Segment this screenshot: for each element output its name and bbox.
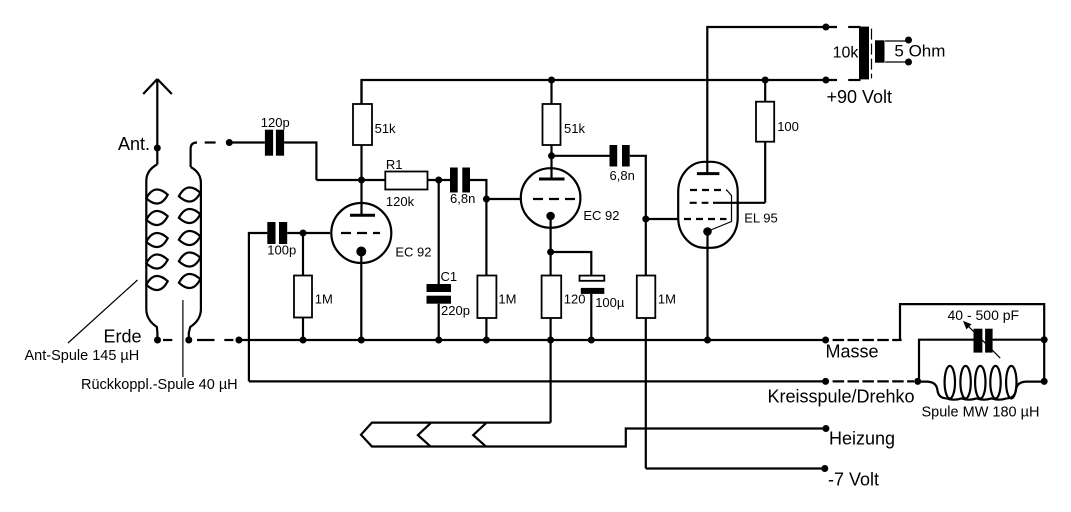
wire node down to C1 <box>438 180 440 284</box>
svg-text:5 Ohm: 5 Ohm <box>894 42 945 61</box>
heater twisted-pair symbol <box>361 423 826 447</box>
leader line for Ant-Spule label <box>68 280 138 343</box>
node input junction dot <box>226 139 233 146</box>
resistor R1 120k <box>385 172 427 190</box>
tube V3 g3 to cathode link <box>710 190 732 231</box>
node C1 ground dot <box>435 337 442 344</box>
svg-text:1M: 1M <box>315 292 333 307</box>
node -7V terminal dot <box>821 465 828 472</box>
node Erde terminal dot <box>154 337 161 344</box>
resistor 51k (stage 2 anode load) <box>543 80 561 179</box>
transformer T1 primary winding bar <box>859 27 869 80</box>
capacitor 100u electrolytic <box>580 276 605 294</box>
svg-text:Heizung: Heizung <box>829 429 895 449</box>
svg-text:51k: 51k <box>375 121 396 136</box>
node ground rail start dot <box>235 337 242 344</box>
capacitor 6,8n (second coupling) <box>610 145 630 167</box>
variable capacitor C 40-500pF plates <box>974 329 993 353</box>
wire -7V horizontal <box>646 467 825 469</box>
node V1 cathode ground dot <box>358 337 365 344</box>
tube V1 EC 92 envelope <box>331 203 391 263</box>
tube V3 grid g3 dashes <box>690 189 727 191</box>
svg-text:1M: 1M <box>498 292 516 307</box>
net Masse ground rail <box>239 339 826 341</box>
svg-text:EC 92: EC 92 <box>395 245 431 260</box>
capacitor C1 220p <box>427 284 452 304</box>
wire V3 anode to transformer <box>707 27 837 174</box>
tube V2 EC 92 envelope <box>521 168 581 228</box>
node L2 bottom junction dot <box>185 337 192 344</box>
node secondary bottom terminal dot <box>905 59 912 66</box>
resistor 120 (cathode) <box>542 276 562 319</box>
tube V2 cathode dot <box>546 212 555 221</box>
node tank left dot <box>914 378 921 385</box>
wire tank top detour <box>900 304 1044 381</box>
wire V1 cathode to ground <box>360 252 362 341</box>
antenna symbol <box>143 79 172 165</box>
svg-text:120p: 120p <box>261 115 290 130</box>
svg-text:-7 Volt: -7 Volt <box>828 470 879 490</box>
wire Masse dashed to tank <box>833 339 902 341</box>
resistor 1M (V2 grid leak) <box>477 199 496 340</box>
transformer secondary winding bar <box>875 40 885 62</box>
tube V3 EL 95 envelope <box>678 162 738 248</box>
svg-text:40 - 500 pF: 40 - 500 pF <box>948 307 1020 323</box>
capacitor 100p (feedback) <box>267 222 287 244</box>
tube V3 grid g1 dashes <box>684 218 727 220</box>
node Heizung terminal dot <box>822 425 829 432</box>
tube V1 cathode dot <box>356 247 366 257</box>
heater chevron 2 <box>473 423 486 446</box>
wire 120p to grid junction of V1 <box>284 143 385 181</box>
wire secondary top lead <box>885 40 908 42</box>
svg-text:C1: C1 <box>441 269 458 284</box>
resistor 51k (stage 1 anode load) <box>353 80 372 214</box>
wire cathode node to 100u <box>551 252 592 276</box>
coil L3 Spule MW (tank coil) <box>918 366 1044 400</box>
node V1 grid leak junction dot <box>300 230 307 237</box>
node Masse terminal dot <box>822 337 829 344</box>
node anode top lead dot <box>822 24 829 31</box>
svg-text:Ant.: Ant. <box>118 134 150 154</box>
node Ant (terminal dot) <box>154 145 161 152</box>
svg-text:EL 95: EL 95 <box>744 211 778 226</box>
node 1M ground dot <box>483 337 490 344</box>
tube V2 anode bar <box>539 178 565 181</box>
wire ground dashed segments <box>197 339 233 341</box>
svg-text:100: 100 <box>777 119 799 134</box>
wire ground dash segment <box>163 339 172 341</box>
wire Kreisspule dashed to tank <box>833 380 914 382</box>
wire R1 to coupling node <box>428 179 451 181</box>
tube V2 grid dashes <box>533 198 576 200</box>
node secondary top terminal dot <box>905 37 912 44</box>
svg-text:100p: 100p <box>267 243 296 258</box>
net Kreisspule/Drehko wire <box>249 380 826 382</box>
node rail dot at 100 ohm <box>762 77 769 84</box>
wire primary bottom hook <box>848 79 860 81</box>
wire 100 to rail <box>764 80 766 102</box>
tube V3 anode bar <box>697 172 720 175</box>
heater chevron 1 <box>418 423 431 446</box>
node rail dot at 51k stage2 <box>548 77 555 84</box>
wire secondary bottom lead <box>885 61 908 63</box>
tube V3 grid g2 dashes <box>690 202 709 204</box>
wire 6,8n to V2 grid <box>470 180 521 199</box>
svg-text:10k: 10k <box>833 44 860 61</box>
node 1M ground dot <box>300 337 307 344</box>
node V2 anode junction dot <box>548 152 555 159</box>
svg-text:Rückkoppl.-Spule 40 µH: Rückkoppl.-Spule 40 µH <box>81 377 238 393</box>
svg-text:220p: 220p <box>441 303 470 318</box>
svg-text:1M: 1M <box>658 292 676 307</box>
svg-text:6,8n: 6,8n <box>610 168 635 183</box>
node 100u ground dot <box>588 337 595 344</box>
resistor 100 (screen) <box>756 102 774 142</box>
svg-text:100µ: 100µ <box>595 295 625 310</box>
wire C1 to ground <box>438 304 440 340</box>
svg-text:+90 Volt: +90 Volt <box>827 87 893 107</box>
wire dashed input link <box>205 141 216 143</box>
tube V1 grid dashes <box>341 232 380 234</box>
wire g2 to 100 ohm <box>713 142 765 203</box>
svg-text:Masse: Masse <box>826 342 879 362</box>
net +90V rail <box>362 80 838 104</box>
svg-text:120k: 120k <box>386 194 415 209</box>
svg-text:51k: 51k <box>564 121 585 136</box>
transformer core dashed line <box>871 29 873 79</box>
wire V2 anode to 6,8n <box>552 155 610 157</box>
svg-text:Ant-Spule 145 µH: Ant-Spule 145 µH <box>25 348 140 364</box>
coil L2 Rueckkopplungs-Spule (feedback coil) <box>179 167 201 341</box>
tube V3 cathode dot <box>703 227 712 236</box>
capacitor 120p <box>265 130 284 156</box>
wire 6,8n to EL95 grid node <box>630 156 679 219</box>
wire V3 cathode to ground <box>706 232 708 341</box>
node V2 grid junction dot <box>483 196 490 203</box>
coil L1 Ant-Spule (antenna coil) <box>146 165 167 341</box>
resistor 1M (EL95 grid leak to -7V) <box>637 219 656 469</box>
node Kreisspule terminal dot <box>822 378 829 385</box>
tube V1 anode bar <box>350 214 375 217</box>
svg-text:EC 92: EC 92 <box>583 208 619 223</box>
node EL95 grid junction dot <box>642 216 649 223</box>
wire input node to C 120p <box>229 141 265 143</box>
variable capacitor arrow <box>963 321 1000 358</box>
svg-text:Kreisspule/Drehko: Kreisspule/Drehko <box>768 387 915 407</box>
svg-text:Erde: Erde <box>104 327 142 347</box>
wire L2 top lead to input node <box>191 143 197 168</box>
leader line for Rueckkoppl label <box>182 300 184 377</box>
wire varcap to right node <box>993 339 1045 341</box>
svg-text:6,8n: 6,8n <box>450 191 475 206</box>
svg-text:Spule MW 180 µH: Spule MW 180 µH <box>922 405 1040 421</box>
node rail dot at transformer <box>822 77 829 84</box>
node tank right bottom dot <box>1041 378 1048 385</box>
svg-text:R1: R1 <box>386 157 403 172</box>
wire 100u to ground <box>590 294 592 340</box>
resistor 1M (V1 grid leak) <box>294 233 312 340</box>
node 120 ground dot <box>547 337 554 344</box>
node grid junction V1 dot <box>358 177 365 184</box>
wire 120 to ground and heater lead <box>549 318 551 423</box>
capacitor 6,8n (first coupling) <box>450 168 470 193</box>
wire 100p left lead to Kreisspule line <box>249 233 267 381</box>
node V2 cathode junction dot <box>547 249 554 256</box>
wire V2 cathode down <box>549 216 551 276</box>
node V3 cathode ground dot <box>704 337 711 344</box>
node tank right cap dot <box>1041 336 1048 343</box>
wire 100p right lead to V1 grid <box>287 232 330 234</box>
wire tank left branch <box>919 340 974 382</box>
node coupling junction dot <box>435 177 442 184</box>
wire primary top hook <box>848 26 860 28</box>
